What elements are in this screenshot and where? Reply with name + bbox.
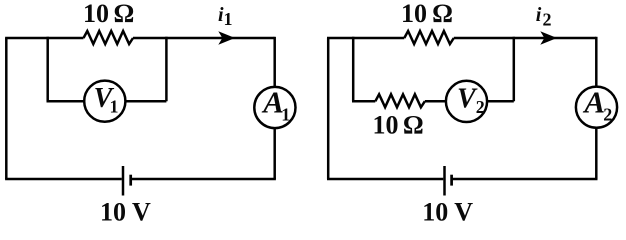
battery B1 long plate (positive) [122,166,125,196]
label: 10 Ω value of R2 [401,0,453,28]
wire: left circuit bottom, left corner to battery B1 [5,178,122,181]
label: A2 inside ammeter [582,85,612,125]
wire: left circuit top, battery-left to resistor R1 [5,37,83,40]
resistor R1 (10 Ω, top of left circuit) [84,31,134,44]
current arrow i1 on top wire [218,31,235,45]
battery B2 long plate (positive) [443,166,446,196]
svg-text:10: 10 [83,0,109,28]
wire: right parallel-branch right vertical (node d) [513,37,516,102]
wire: right circuit right side, top corner down to ammeter A2 [595,37,598,87]
wire: battery B1 to bottom-right corner [131,178,276,181]
svg-text:10: 10 [401,0,427,28]
wire: left circuit right side, top corner down to ammeter A1 [273,37,276,87]
svg-text:2: 2 [543,9,552,29]
ammeter A2 [576,87,617,128]
svg-text:Ω: Ω [432,0,453,28]
label: 10 V value of battery B2 [422,198,473,227]
label: i2 current [536,4,552,30]
svg-text:10 V: 10 V [422,198,473,227]
svg-text:1: 1 [110,97,119,117]
svg-text:Ω: Ω [403,111,424,140]
wire: right circuit top, resistor R2 to top-right corner [454,37,597,40]
resistor R3 (10 Ω, in series with voltmeter V2) [375,94,425,107]
wire: left circuit outer left side [5,38,8,179]
wire: ammeter A2 down to bottom-right corner [595,128,598,179]
svg-text:2: 2 [603,104,612,124]
wire: right circuit bottom, left corner to battery B2 [327,178,443,181]
svg-text:10: 10 [373,111,399,140]
battery B2 short plate (negative) [450,175,453,186]
label: 10 V value of battery B1 [100,198,151,227]
label: 10 Ω value of R3 [373,111,424,140]
wire: left parallel-branch left vertical (node a) [46,37,49,101]
wire: ammeter A1 down to bottom-right corner [273,128,276,179]
svg-text:1: 1 [281,104,290,124]
resistor R2 (10 Ω, top of right circuit) [404,31,454,44]
label: V1 inside voltmeter [94,83,119,117]
wire: branch horizontal to resistor R3 [352,100,375,103]
ammeter A1 [254,87,295,128]
svg-text:2: 2 [476,97,485,117]
voltmeter V1 [84,81,125,122]
wire: right circuit outer left side [327,38,330,179]
label: i1 current [218,4,233,29]
battery B1 short plate (negative) [129,175,132,186]
svg-text:Ω: Ω [114,0,135,28]
wire: voltmeter V2 to branch right vertical [487,100,514,103]
voltmeter V2 [446,81,487,122]
wire: left parallel-branch right vertical (node b) [165,37,168,101]
wire: voltmeter V1 to branch right vertical [125,100,166,103]
wire: branch horizontal to voltmeter V1 [47,100,86,103]
svg-text:10 V: 10 V [100,198,151,227]
wire: battery B2 to bottom-right corner [452,178,598,181]
wire: right circuit top, left corner to resistor R2 [327,37,404,40]
label: A1 inside ammeter [261,85,290,125]
wire: right parallel-branch left vertical (node c) [352,37,355,102]
svg-text:1: 1 [224,9,233,29]
wire: left circuit top, resistor R1 to top-right corner [133,37,275,40]
wire: resistor R3 to voltmeter V2 [425,100,446,103]
label: 10 Ω value of R1 [83,0,134,28]
svg-text:A: A [582,85,605,120]
svg-text:i: i [536,4,542,26]
label: V2 inside voltmeter [457,84,485,117]
current arrow i2 on top wire [540,31,557,45]
